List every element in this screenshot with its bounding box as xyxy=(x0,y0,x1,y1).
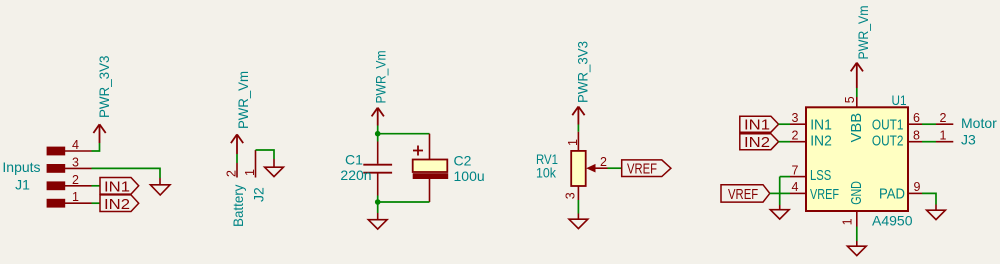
svg-text:PAD: PAD xyxy=(879,186,905,202)
svg-text:1: 1 xyxy=(566,139,580,146)
hierarchical label VREF (U1) xyxy=(721,185,770,203)
wire IN1 label to pin 3 xyxy=(779,123,790,125)
J1 pin numbers xyxy=(72,138,79,204)
svg-text:C1: C1 xyxy=(345,152,363,168)
RV1 pin 1 xyxy=(577,132,579,151)
svg-text:PWR_Vm: PWR_Vm xyxy=(235,71,251,129)
junction bottom node xyxy=(375,199,381,205)
ground symbol (PAD) xyxy=(927,205,946,220)
U1 pin 1 (GND) xyxy=(856,211,858,227)
svg-text:IN1: IN1 xyxy=(104,179,130,196)
svg-text:9: 9 xyxy=(914,180,921,194)
svg-text:VREF: VREF xyxy=(627,161,657,178)
svg-text:2: 2 xyxy=(600,155,607,169)
U1 pin 5 xyxy=(856,97,858,107)
power symbol PWR_Vm (C1/C2) xyxy=(372,108,384,126)
J2 pin 2 line xyxy=(236,163,238,178)
wire pin1 to ground xyxy=(256,150,275,159)
wire VREF label to node xyxy=(770,192,780,194)
C1 value fields xyxy=(340,152,371,184)
ground symbol (C1/C2) xyxy=(368,213,387,229)
U1 pin names xyxy=(810,117,905,203)
hierarchical label IN2 (U1) xyxy=(740,134,779,152)
capacitor C1 xyxy=(363,142,392,196)
svg-text:J2: J2 xyxy=(251,187,267,202)
U1 pin 8 xyxy=(908,141,922,143)
connector J3 pin 2 xyxy=(936,123,953,125)
connector J1 reference text xyxy=(2,159,40,193)
potentiometer RV1 body xyxy=(571,151,586,186)
U1 pin 2 xyxy=(790,141,806,143)
C2 plus sign xyxy=(413,146,423,156)
svg-text:PWR_3V3: PWR_3V3 xyxy=(575,41,591,103)
svg-text:2: 2 xyxy=(225,170,239,177)
svg-text:J3: J3 xyxy=(961,132,976,148)
svg-text:1: 1 xyxy=(243,169,257,176)
svg-text:IN2: IN2 xyxy=(104,196,130,213)
svg-text:3: 3 xyxy=(792,111,799,125)
svg-text:PWR_Vm: PWR_Vm xyxy=(855,6,871,60)
svg-text:VBB: VBB xyxy=(849,113,865,143)
J1 pin lines xyxy=(65,151,92,203)
power symbol PWR_3V3 (J1) xyxy=(93,124,105,143)
svg-text:IN1: IN1 xyxy=(810,117,832,133)
capacitor C2 (polarized) xyxy=(413,134,449,202)
svg-text:PWR_3V3: PWR_3V3 xyxy=(96,55,112,118)
wire pin1 to ground xyxy=(856,227,858,242)
connector J3 fields xyxy=(961,115,997,148)
wire pin8 to J3 pin1 xyxy=(922,141,936,143)
svg-text:3: 3 xyxy=(72,155,79,169)
power symbol PWR_Vm (U1) xyxy=(851,63,863,88)
svg-text:VREF: VREF xyxy=(810,187,839,203)
svg-text:IN2: IN2 xyxy=(810,134,832,150)
svg-text:7: 7 xyxy=(792,164,799,178)
svg-text:Battery: Battery xyxy=(230,185,246,228)
svg-text:2: 2 xyxy=(72,173,79,187)
junction top node xyxy=(375,131,381,137)
svg-text:1: 1 xyxy=(940,129,947,143)
svg-text:Motor: Motor xyxy=(961,115,997,131)
wire bottom node xyxy=(377,196,379,214)
wire pin4 to power xyxy=(92,143,100,151)
svg-text:6: 6 xyxy=(913,111,920,125)
wire bottom node to C2 xyxy=(378,201,430,203)
U1 pin 4 xyxy=(790,192,806,194)
connector J3 pin 1 xyxy=(936,141,953,143)
svg-text:3: 3 xyxy=(564,192,578,199)
power symbol PWR_Vm (J2) xyxy=(231,134,243,154)
wire pin2 to VREF label xyxy=(608,167,622,169)
wire pin2 to power xyxy=(236,154,238,163)
svg-text:2: 2 xyxy=(940,111,947,125)
svg-text:8: 8 xyxy=(913,129,920,143)
wire pin6 to J3 pin2 xyxy=(922,123,936,125)
RV1 fields xyxy=(536,151,558,181)
wire IN2 label to pin 2 xyxy=(779,141,790,143)
wire top node to C2 xyxy=(378,133,430,135)
wire pin3 to ground xyxy=(577,200,579,214)
hierarchical label IN2 (J1) xyxy=(100,195,139,213)
svg-text:100u: 100u xyxy=(454,168,485,184)
RV1 wiper pin 2 xyxy=(586,164,607,173)
ground symbol (U1 GND) xyxy=(847,241,866,256)
power symbol PWR_3V3 (RV1) xyxy=(572,107,584,125)
wire power to RV1 pin1 xyxy=(577,125,579,132)
ground symbol (VREF/LSS) xyxy=(770,205,789,219)
svg-text:OUT1: OUT1 xyxy=(872,117,904,133)
ground symbol (RV1) xyxy=(569,214,588,229)
wire pin9 to ground xyxy=(922,193,936,204)
wire LSS/VREF tie xyxy=(779,177,781,205)
wire pin3 to ground xyxy=(92,168,161,178)
svg-text:OUT2: OUT2 xyxy=(872,134,904,150)
svg-text:LSS: LSS xyxy=(810,168,831,184)
svg-text:GND: GND xyxy=(849,181,865,205)
wire node to pin 7 xyxy=(780,176,790,178)
svg-text:IN1: IN1 xyxy=(744,117,770,134)
wire pin2 to IN1 label xyxy=(92,185,101,187)
svg-text:Inputs: Inputs xyxy=(2,159,40,175)
svg-text:10k: 10k xyxy=(536,165,557,181)
J2 pin 1 line xyxy=(255,150,257,178)
svg-text:U1: U1 xyxy=(892,92,907,108)
wire power to pin 5 xyxy=(856,88,858,97)
svg-text:5: 5 xyxy=(843,96,857,103)
svg-text:VREF: VREF xyxy=(728,186,758,203)
hierarchical label VREF (RV1) xyxy=(622,160,671,178)
C2 value fields xyxy=(454,153,485,185)
RV1 pin 3 xyxy=(577,186,579,200)
connector J1 pin pads xyxy=(47,147,66,208)
wire node to pin 4 xyxy=(780,192,790,194)
hierarchical label IN1 (J1) xyxy=(100,178,139,196)
svg-text:4: 4 xyxy=(72,138,79,152)
svg-text:1: 1 xyxy=(841,218,855,225)
hierarchical label IN1 (U1) xyxy=(740,116,779,134)
wire pin1 to IN2 label xyxy=(92,202,101,204)
ground symbol (J1) xyxy=(150,178,170,195)
svg-text:220n: 220n xyxy=(340,167,371,183)
svg-text:C2: C2 xyxy=(454,153,472,169)
U1 pin 6 xyxy=(908,123,922,125)
U1 pin 3 xyxy=(790,123,806,125)
svg-text:4: 4 xyxy=(792,180,799,194)
svg-text:2: 2 xyxy=(792,129,799,143)
U1 pin 7 xyxy=(790,176,806,178)
svg-text:1: 1 xyxy=(72,190,79,204)
svg-text:J1: J1 xyxy=(15,177,30,193)
svg-text:PWR_Vm: PWR_Vm xyxy=(373,51,389,104)
wire power to top node xyxy=(377,126,379,142)
U1 pin 9 (PAD) xyxy=(908,192,922,194)
IC U1 body xyxy=(806,107,908,211)
svg-text:IN2: IN2 xyxy=(744,134,770,151)
ground symbol (J2) xyxy=(265,159,284,177)
svg-text:A4950: A4950 xyxy=(872,213,913,229)
